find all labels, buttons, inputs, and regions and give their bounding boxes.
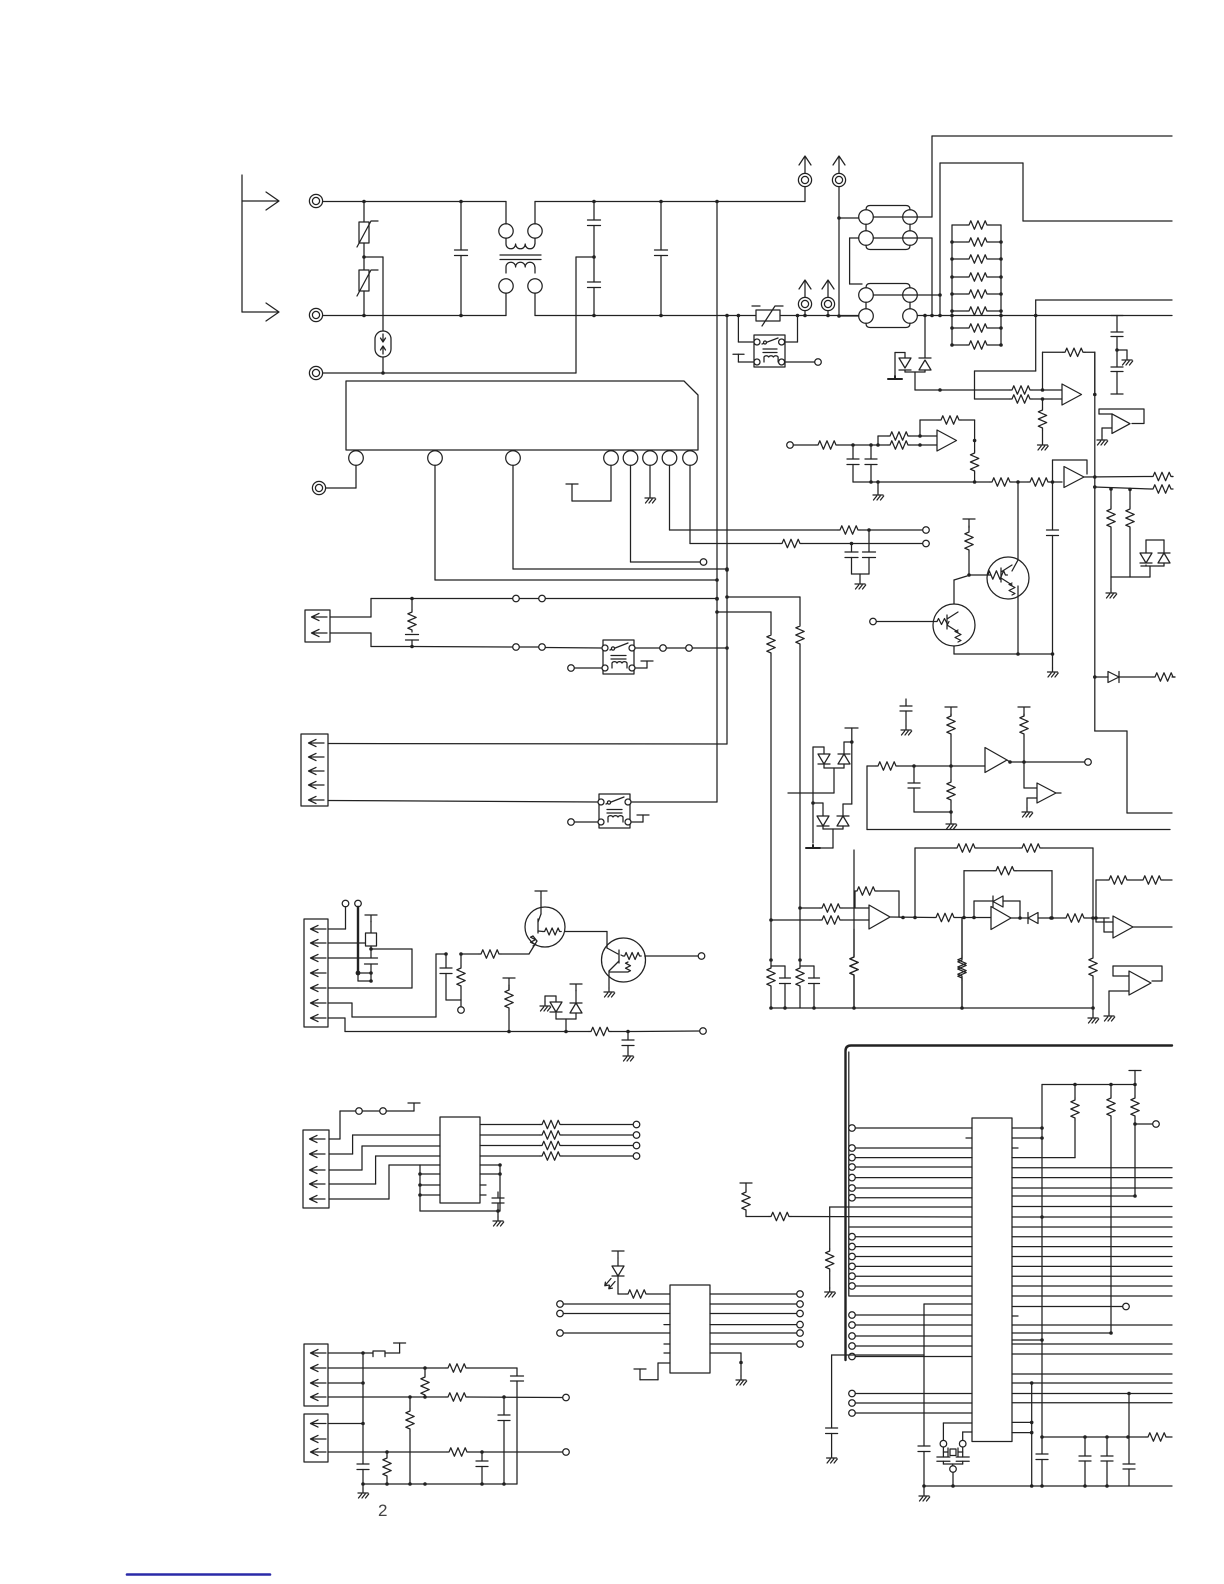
wire AC-N bottom [323, 315, 859, 317]
connector CN6 (4p) [304, 1344, 328, 1406]
contact gap S1 [513, 595, 546, 602]
node P2 block tap [837, 216, 841, 220]
wire line793 [788, 792, 834, 794]
pin stubs U5 [480, 1185, 486, 1195]
diode D17 [540, 996, 576, 1032]
wire T3 bottom in [837, 314, 859, 318]
resistor R-F1 [798, 904, 869, 912]
capacitor C-xr [826, 1428, 838, 1463]
module pin 4 [604, 451, 619, 466]
wire U7 out 1340 [1012, 1339, 1042, 1341]
wire U7 out 1306 [1012, 1303, 1129, 1310]
capacitor CX1 [455, 200, 468, 318]
connector J1 pin2 (AC N) [309, 308, 322, 321]
ground Q4 [604, 988, 615, 997]
resistor R-cl2 [1126, 488, 1134, 577]
wire to TP11 [628, 1028, 706, 1035]
wire U7 out 1217 [1012, 1216, 1172, 1218]
wire tap597 [727, 597, 800, 624]
diode D14 [813, 803, 829, 829]
resistor R-p7 [447, 1448, 563, 1456]
resistor R-K2 [1010, 395, 1032, 403]
U7 left inputs g1 [849, 1125, 972, 1201]
wire CN6-4 line1397 [328, 1395, 446, 1399]
resistor R-F8 [1051, 914, 1109, 922]
node CX2 mid [592, 255, 596, 259]
connector J2 pin (chassis) [312, 481, 325, 494]
ground clamp577 [1106, 577, 1117, 598]
resistor R-p4b [406, 1397, 414, 1484]
wire clamp vert813 [811, 747, 815, 843]
coupler T3 [859, 284, 918, 328]
wire RY1 contact out [635, 647, 660, 649]
zener D13 [837, 742, 852, 829]
capacitor C-Q [1047, 482, 1059, 654]
resistor R-pin7 [505, 985, 513, 1032]
rail U7 top [1042, 1083, 1137, 1087]
resistor R-row880a [1107, 876, 1129, 884]
wire U7 xtal gnd steps [1012, 1381, 1033, 1488]
U7 stub left [966, 1137, 972, 1139]
wire line647 [410, 645, 601, 649]
wire U6 gnd [710, 1353, 747, 1385]
capacitor C-x0 [918, 1446, 930, 1488]
U7 left inputs g4 [849, 1390, 972, 1416]
resistor R-F9 [958, 918, 966, 1008]
wire vcc line1437 [1042, 1435, 1130, 1439]
op-amp U4C [1096, 916, 1133, 938]
footer rule [127, 1573, 270, 1576]
capacitor C-v2 [1101, 1437, 1113, 1488]
wire CN7-1 [328, 1423, 363, 1425]
resistor R7a [838, 526, 860, 534]
ground C-hv mid [1117, 350, 1133, 365]
wire pin8 run [690, 466, 780, 544]
capacitor CX3 [655, 200, 668, 318]
component F1 chip [365, 915, 377, 958]
wire U5 gnd rail [420, 1209, 500, 1213]
wire U5 out3 [480, 1145, 540, 1147]
ground G1 [946, 812, 957, 829]
resistor R-K1 [1010, 386, 1032, 394]
wire CN2-1 [330, 599, 371, 618]
ground U5 [493, 1211, 504, 1226]
wire CN6-1 [328, 1351, 373, 1355]
feedback R-K3 [1043, 348, 1095, 394]
wire U4A out [890, 916, 934, 920]
wire clamp top loop [1146, 539, 1164, 541]
resistor R-o1 [540, 1120, 640, 1128]
wire pin2 run [435, 466, 719, 582]
capacitor C-A1 [847, 445, 859, 482]
transistor Q1 [969, 557, 1029, 599]
coupler T2 [859, 206, 918, 250]
ground bus1008 [1088, 1008, 1099, 1023]
ground module pin6 [645, 466, 656, 504]
wire U6 out4 [710, 1321, 803, 1328]
feedback R-A3 [920, 416, 975, 441]
resistor R-G3 [1020, 714, 1028, 764]
capacitor C-bus [357, 1464, 369, 1486]
wire Q1 collector [1017, 482, 1019, 560]
resistor R-pu3 [1131, 1085, 1139, 1126]
crystal X1 [937, 1423, 972, 1466]
resistor R-o4 [540, 1152, 640, 1160]
varistor RV3 in line [752, 306, 783, 326]
power stub RY2 coil [631, 815, 649, 822]
wire drop1 [798, 646, 802, 962]
capacitor C-hv2 [1111, 350, 1123, 394]
resistor R-Q2c [965, 526, 973, 577]
test point TP2 [923, 527, 930, 534]
wire pin6 path [328, 954, 446, 1017]
power stub ctrl B [740, 1183, 752, 1190]
wire CN3-1 line744 [328, 743, 727, 746]
wire RY3 coil out [785, 361, 815, 363]
resistor R-ctrlA [825, 1249, 836, 1297]
feedback R-F3 [855, 887, 899, 917]
power stub U7 rail [1129, 1071, 1141, 1085]
node AC sense tap [1034, 314, 1038, 318]
connector CN3 (5p) [301, 734, 328, 806]
ground C7a C8a [852, 574, 870, 589]
test point TP1 [700, 559, 707, 566]
module pin 6 [643, 451, 658, 466]
diode D1 [1093, 672, 1153, 683]
module pin 5 [623, 451, 638, 466]
relay RY2 [598, 794, 631, 828]
inner rail wires [849, 1052, 972, 1296]
resistor R-B1 [990, 478, 1012, 486]
node 1018 [1012, 480, 1028, 484]
wire top contact line [340, 1108, 414, 1115]
wire pin4 link [358, 971, 373, 983]
TVS diode pair D10 [888, 314, 931, 390]
op-amp U2B [1053, 460, 1088, 488]
wire U7 out 1196 [1012, 1195, 1135, 1197]
node RV3 left [737, 314, 741, 318]
wire AC-N right [917, 315, 1172, 317]
wire RY1 coil left [575, 667, 603, 669]
common-mode choke T1 [499, 202, 542, 316]
resistor R-p7b [383, 1452, 391, 1484]
wire CN2-2 [330, 633, 412, 647]
wire A inputs [910, 434, 937, 447]
input bracket with arrows [242, 175, 279, 321]
wire pin4 stub [566, 466, 611, 502]
control block outline [846, 1046, 1173, 1361]
wire xtal return [832, 1304, 972, 1428]
resistor R-drop1a [796, 624, 804, 646]
zener D11 [838, 742, 852, 768]
IC U7 [972, 1118, 1012, 1442]
capacitor C7a [863, 530, 876, 574]
zener D20a [1140, 540, 1159, 577]
wire pin2 [328, 942, 366, 944]
capacitor C-q3 [440, 952, 452, 1000]
power stub G2 [945, 707, 957, 714]
connector J1 pin1 (AC L) [309, 194, 322, 207]
resistor R-drop2b [767, 960, 775, 1008]
varistor RV1 [357, 202, 378, 258]
wire v1129 [1128, 1394, 1130, 1465]
wire sense riser [975, 300, 1173, 399]
wire CN5-2 [329, 1135, 440, 1154]
contact gap S3 [660, 645, 693, 652]
wire CN7-3 line1452 [328, 1450, 447, 1454]
capacitor C-v3 [1123, 1464, 1135, 1486]
wire clamp2 bottom [818, 829, 843, 848]
resistor R-drop1b [796, 960, 804, 1008]
test point TP3 [923, 540, 930, 547]
wire bus829 [867, 829, 1170, 831]
rail top line136 [932, 135, 1172, 137]
wire feeder 727 [725, 314, 729, 744]
capacitor C-p2t [511, 1368, 524, 1484]
capacitor C-dec906 [900, 699, 912, 735]
wire CN5-4 [329, 1156, 440, 1184]
resistor R8a [780, 539, 802, 547]
wire U2B out [1084, 475, 1151, 489]
resistor R-snub [408, 599, 416, 632]
wire U7 out 1128 [1012, 1127, 1042, 1129]
test point TP4 [568, 665, 575, 672]
op-amp U1A [1043, 384, 1082, 405]
node K inputs [1032, 388, 1044, 401]
wire TP7 to pin1 [328, 907, 346, 929]
wire feeder 717 [715, 200, 719, 802]
resistor bank R10-R17 [950, 221, 1003, 349]
wire J2 to pin1 [326, 466, 356, 489]
wire U6 out5 [710, 1330, 803, 1337]
op-amp U4B [991, 907, 1011, 930]
node C-led [611, 1030, 630, 1034]
wire U5 out1 [480, 1124, 540, 1126]
test point TP16 [563, 1449, 570, 1456]
capacitor C-r1042 [1036, 1454, 1048, 1488]
wire U5 left bus [418, 1165, 440, 1211]
wire line482 [853, 481, 990, 483]
wire U6 out2 [710, 1301, 803, 1308]
resistor R-o2 [540, 1131, 640, 1139]
pin stub U7 1316 [1012, 1315, 1018, 1317]
resistor R-led2 [626, 1290, 670, 1298]
feedback R-A4 [970, 441, 978, 484]
test point TP7 [342, 900, 349, 907]
capacitor C-v1 [1079, 1437, 1091, 1488]
resistor R-drop2a [767, 633, 775, 655]
transistor Q4 [602, 938, 699, 988]
connector P2 arrow [832, 156, 845, 316]
wire bus766 [867, 762, 985, 770]
wire U5 out4 [480, 1155, 540, 1157]
wire RY2 coil left [575, 821, 599, 823]
test point TP6 [815, 359, 822, 366]
resistor R-o3 [540, 1141, 640, 1149]
diode D15 loop [974, 896, 1022, 920]
capacitor C-U5 [492, 1192, 504, 1211]
power stub G3 [1018, 707, 1030, 714]
resistor R-D1 [1153, 673, 1175, 681]
pin stub U7 right [1012, 1147, 1018, 1149]
resistor R-pu2 [1107, 1085, 1115, 1335]
wire to U4B [913, 916, 991, 920]
wire R8a to TP [802, 542, 923, 546]
op-amp U3A [985, 748, 1010, 773]
surge arrester E1 [375, 331, 391, 357]
wire pin5 run [631, 466, 701, 563]
test point TP5 [568, 819, 575, 826]
resistor R-F4 [934, 913, 956, 921]
wire J1-GND [323, 257, 594, 373]
wire A upper branch [878, 436, 888, 445]
diode D12 [813, 747, 830, 768]
resistor R-mid854 [850, 929, 858, 1008]
capacitor C-sh [328, 958, 378, 981]
test point TP-G [1085, 759, 1092, 766]
wire T2 out bottom [873, 238, 932, 316]
connector CN7 (3p) [304, 1414, 328, 1462]
node U1A out [1093, 393, 1097, 397]
capacitor C-A2 [865, 445, 877, 484]
jumper JP1 [373, 1343, 406, 1357]
wire q3 rc join [446, 1000, 461, 1007]
wire U6 out3 [710, 1310, 803, 1317]
connector CN4 (7p) [304, 919, 328, 1027]
wire pin3 run [513, 466, 729, 571]
page number 2 [378, 1501, 387, 1520]
wire CN5-3 [329, 1146, 440, 1170]
wire U7 out 1333 [1012, 1332, 1111, 1334]
resistor R-A1 [888, 432, 910, 440]
wire xtal v924 [923, 1355, 925, 1446]
power stub RY3 coil [733, 354, 754, 362]
op-amp U4A [869, 905, 890, 929]
feedback upper loop R-F5 R-F6 [915, 844, 1093, 918]
transistor Q3 [501, 907, 565, 954]
capacitor C-p7 [476, 1452, 488, 1484]
capacitor C-led [622, 1032, 634, 1062]
test point TP15 [563, 1394, 570, 1401]
wire CN5-5 [329, 1165, 420, 1199]
module pin 8 [683, 451, 698, 466]
wire bus363 [361, 1353, 365, 1464]
wire rail drop 1042 [1040, 1085, 1044, 1455]
resistor R-row880b [1129, 876, 1172, 884]
ground line482 [873, 480, 884, 500]
resistor R-ctrlB1 [742, 1190, 769, 1217]
wire line598 [371, 597, 719, 601]
wire pin7 long [328, 1018, 589, 1033]
wire U5 out2 [480, 1134, 540, 1136]
capacitor C-snub [406, 635, 419, 647]
zener D18 [570, 984, 582, 1019]
resistor R-p2 [446, 1364, 517, 1372]
svg-text:2: 2 [378, 1501, 387, 1520]
wire row880 [1096, 880, 1107, 918]
capacitor CX2 upper [588, 200, 601, 257]
wire drop854 [850, 850, 858, 1008]
resistor R-G1 [947, 766, 955, 812]
node varistor mid [362, 255, 366, 259]
test point TP9 [458, 1007, 465, 1014]
node feeder joints [715, 568, 729, 614]
wire tap612 [717, 612, 771, 633]
contact gap S2 [513, 644, 546, 651]
wire T3 out top [873, 293, 942, 297]
wire loop pin5 [328, 949, 412, 988]
power stub R-pin7 [503, 978, 515, 990]
ground line1486 [919, 1486, 930, 1501]
test point TP10 [698, 953, 705, 960]
capacitor C-drop2 [771, 966, 791, 1010]
node C-p4 [502, 1395, 506, 1399]
power stub Q3 [535, 891, 547, 907]
U7 bus lines right [1012, 1168, 1172, 1403]
wire CN6-3 [328, 1382, 363, 1384]
relay RY1 [602, 640, 635, 674]
resistor R-v1 [1129, 1433, 1172, 1441]
LED D19 [605, 1251, 626, 1294]
wire varistor to arrester [364, 257, 383, 331]
power supply module M1 [346, 381, 698, 450]
test point TP12 [557, 1301, 670, 1308]
connector CN5 (5p) [303, 1130, 329, 1208]
wire bus1008 [769, 1006, 1093, 1010]
wire R7a to TP [860, 528, 923, 532]
capacitor C-drop1 [800, 966, 820, 1010]
power stub top [408, 1103, 420, 1111]
wire arrester to GND wire [381, 357, 385, 375]
wire xtal gnd [951, 1472, 955, 1487]
resistor R-q3a [461, 950, 501, 958]
wire U7 out 1138 [1012, 1137, 1042, 1139]
wire U5 right bus [480, 1163, 502, 1211]
node C-p7 [480, 1450, 484, 1454]
connector J1 pin3 (GND) [309, 366, 322, 379]
wire line445 [787, 441, 888, 449]
module pin 2 [428, 451, 443, 466]
test point TP8 [355, 900, 362, 907]
resistor R-F2 [769, 916, 869, 924]
resistor R-ctrlB2 [769, 1212, 972, 1220]
wire AC-L top [323, 201, 805, 203]
wire clamp bar577 [1111, 576, 1150, 578]
wire U7 out 1393 [1012, 1392, 1172, 1396]
node 1052 [1050, 480, 1062, 484]
wire rail2 riser [940, 163, 1172, 295]
module pin 3 [506, 451, 521, 466]
node AC taps [796, 314, 942, 318]
wire U6 out6 [710, 1341, 803, 1348]
resistor R-out2 [1151, 485, 1173, 493]
power stub Q2 [963, 519, 975, 528]
wire T3 riser down [939, 295, 941, 316]
module pin 7 [662, 451, 677, 466]
feedback R-F7 [964, 867, 1054, 920]
node U2A out [973, 439, 977, 443]
wire CN3-5 line802 [328, 801, 598, 803]
diode D16 [1011, 913, 1053, 924]
connector P4 arrow [821, 280, 834, 317]
varistor RV2 [357, 257, 378, 317]
resistor R-p2b [421, 1368, 429, 1397]
test point TP17 [1135, 1121, 1159, 1128]
resistor R-F10 [1089, 918, 1097, 1010]
resistor R-pu1 [1012, 1085, 1079, 1158]
wire T2 in [839, 217, 859, 219]
resistor R-out1 [1151, 472, 1173, 480]
